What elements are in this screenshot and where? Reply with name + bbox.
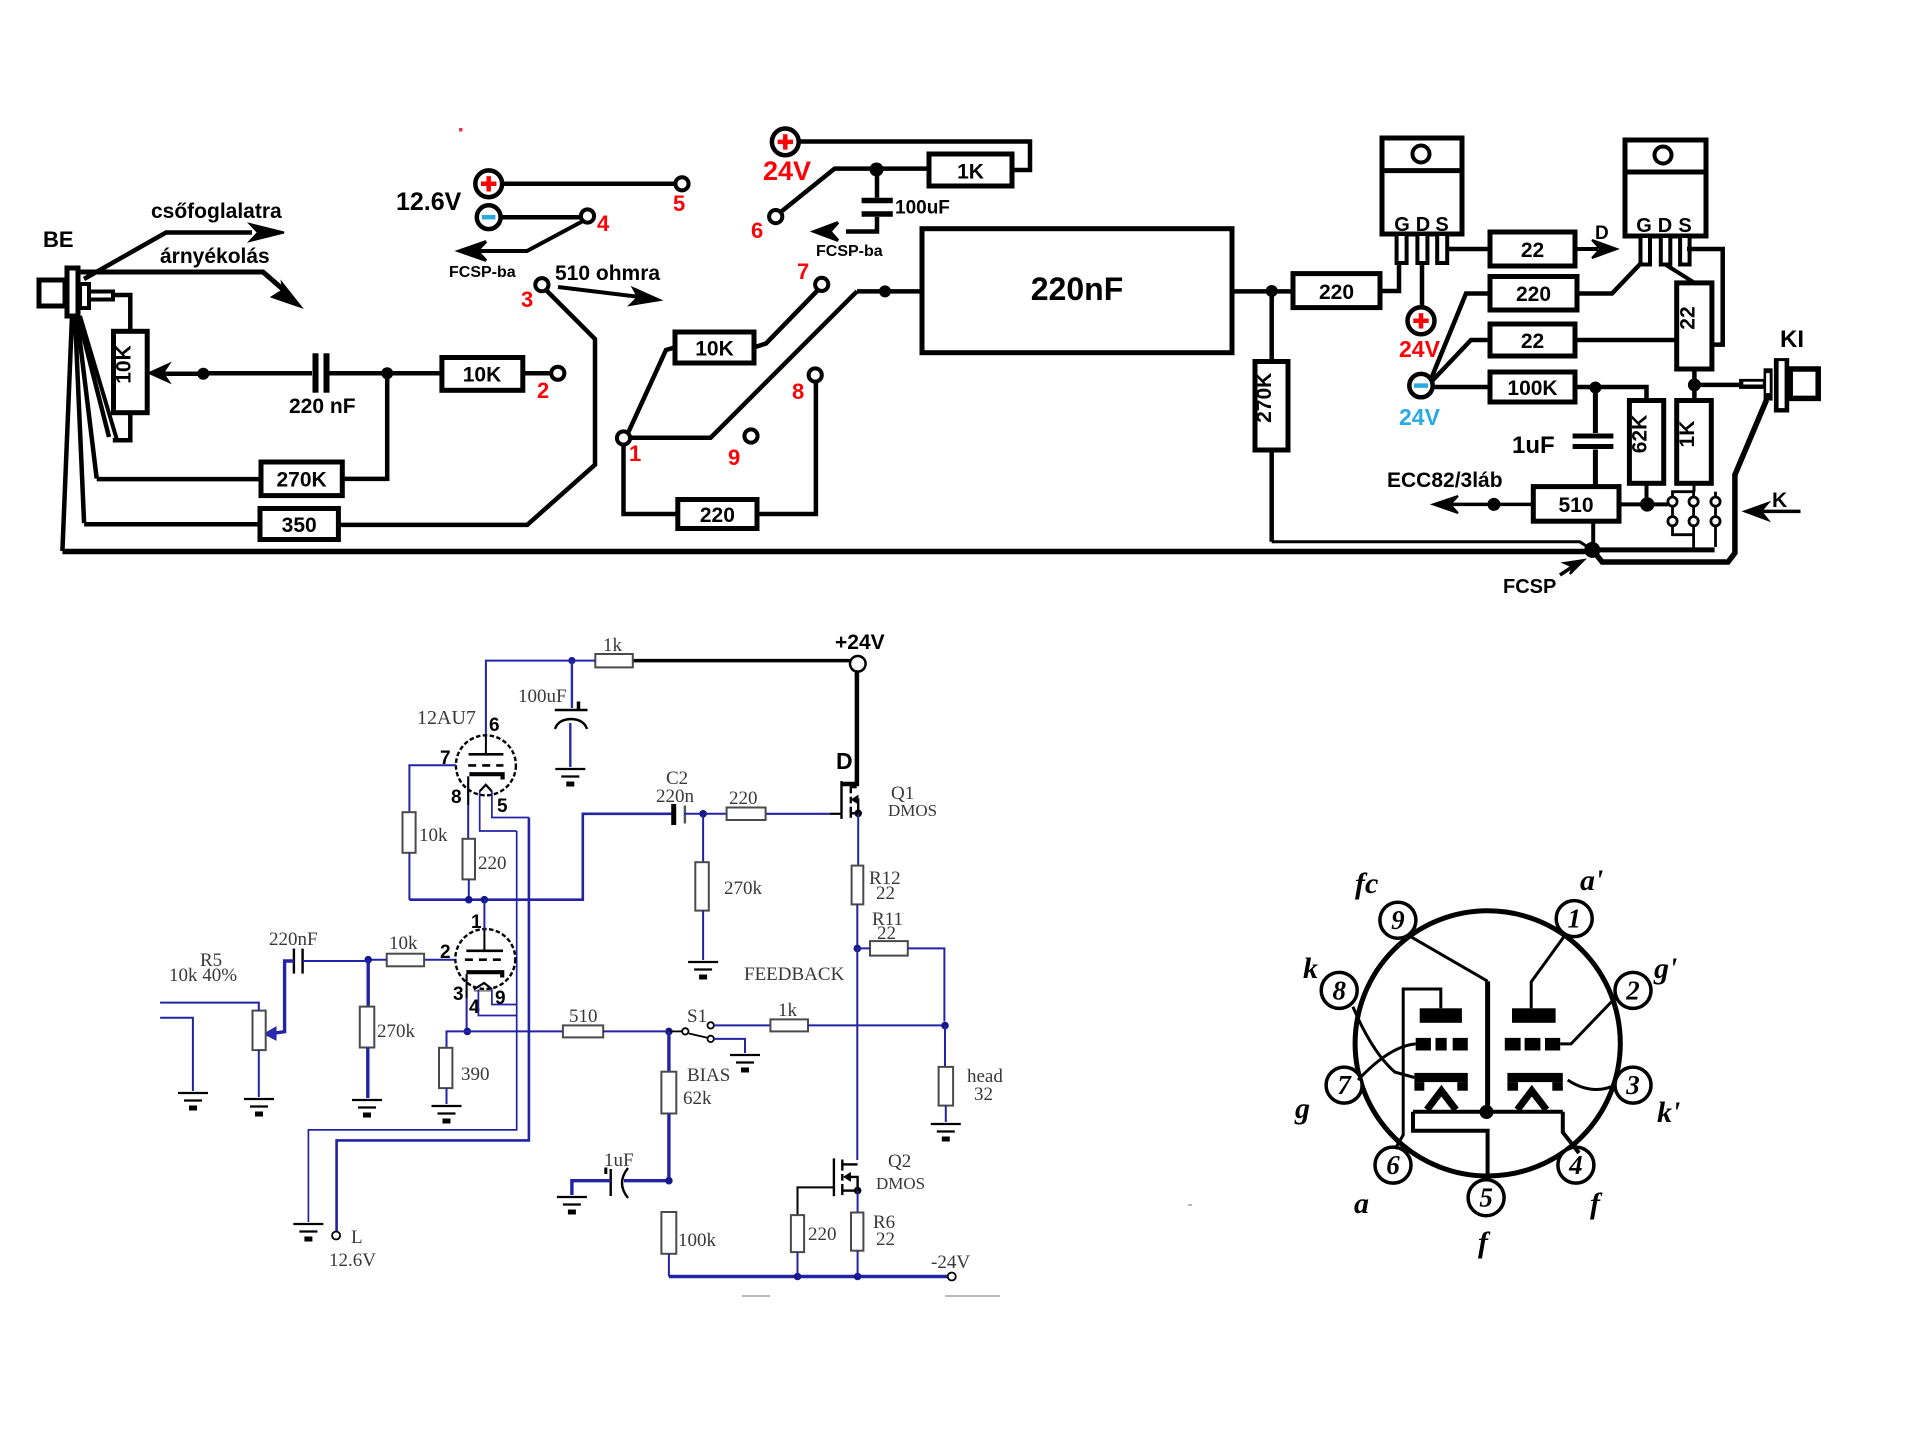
svg-text:S1: S1: [687, 1006, 707, 1027]
svg-text:3: 3: [453, 984, 464, 1005]
svg-text:220: 220: [700, 504, 735, 527]
svg-text:8: 8: [1332, 976, 1346, 1006]
svg-text:FCSP-ba: FCSP-ba: [816, 243, 883, 260]
resistor 10K (to point 2): [442, 358, 523, 391]
wire point 8 down to 220: [757, 382, 816, 514]
wire pot bottom to ground: [258, 1050, 260, 1097]
resistor 220 (row2): [1490, 277, 1577, 311]
wire pin1 to right anode: [1531, 934, 1566, 1008]
svg-text:10k: 10k: [389, 933, 418, 954]
svg-text:32: 32: [974, 1084, 993, 1105]
svg-text:350: 350: [282, 514, 317, 537]
wire 220 row2 left to minus: [1431, 294, 1490, 380]
svg-text:62K: 62K: [1629, 415, 1652, 454]
wire head to ground: [945, 1106, 947, 1122]
svg-text:12.6V: 12.6V: [329, 1250, 376, 1271]
svg-text:S: S: [1678, 215, 1691, 237]
resistor head 32: [939, 1067, 954, 1106]
svg-text:4: 4: [1568, 1150, 1583, 1180]
svg-text:D: D: [836, 748, 853, 774]
wire heater bus B: [337, 818, 529, 1232]
arrow 510 ohmra: [558, 287, 660, 305]
wire 1K bottom to header: [1693, 483, 1696, 491]
svg-text:k': k': [1657, 1096, 1680, 1129]
resistor 220 (Q1 gate): [727, 808, 766, 821]
wire 350 right to point 3: [338, 290, 595, 525]
wire cathode2 down: [466, 974, 468, 1031]
ground (100uF): [555, 769, 585, 784]
svg-text:6: 6: [751, 218, 763, 243]
wire-arrow to ECC82: [1433, 496, 1533, 513]
svg-text:DMOS: DMOS: [876, 1174, 925, 1193]
svg-text:12.6V: 12.6V: [396, 188, 462, 216]
wire 1k node to tube1 plate: [486, 661, 595, 736]
svg-text:L: L: [351, 1227, 363, 1248]
wire pin8 to left cathode: [1353, 1007, 1415, 1078]
wire BE fan line 3: [77, 317, 97, 479]
svg-text:4: 4: [597, 211, 610, 236]
wire 220nF to node: [303, 960, 369, 962]
wire 22 row3 right to 22 vertical: [1575, 338, 1677, 343]
capacitor 220 nF: [316, 353, 327, 392]
resistor 1K: [929, 154, 1012, 186]
resistor 270K: [261, 462, 342, 496]
wire tube2 plate to node: [483, 900, 485, 930]
terminal point 3: [535, 278, 548, 291]
terminal -24V: [948, 1273, 956, 1281]
svg-text:a: a: [1354, 1187, 1369, 1220]
terminal 12.6V minus: [477, 205, 501, 229]
wire S pin #2 loop: [1687, 249, 1723, 345]
svg-text:220: 220: [808, 1224, 837, 1245]
wire 22 row3 left to minus: [1432, 340, 1490, 381]
svg-text:K: K: [1772, 489, 1787, 512]
terminal 24V plus (mid): [1408, 307, 1435, 334]
wire 220 to G pin: [1380, 262, 1399, 291]
terminal point 5: [675, 177, 688, 190]
svg-text:510 ohmra: 510 ohmra: [555, 262, 660, 285]
wire tube2 heater pin9: [492, 989, 517, 1004]
wire 10K left to point 1: [628, 347, 675, 433]
transistor Q2 DMOS: [834, 1158, 858, 1196]
wire 100k down to -24V bus: [668, 1254, 670, 1277]
wire 62K bottom: [1645, 483, 1649, 504]
tube 12AU7 triode 2: [455, 929, 515, 991]
heater bottom wiring: [1413, 1110, 1563, 1114]
svg-text:6: 6: [489, 715, 500, 736]
svg-text:10k: 10k: [419, 825, 448, 846]
svg-text:2: 2: [537, 378, 549, 403]
svg-text:270k: 270k: [724, 878, 763, 899]
svg-text:3: 3: [1625, 1070, 1640, 1100]
junction dot bias node: [665, 1028, 673, 1036]
svg-text:csőfoglalatra: csőfoglalatra: [151, 200, 282, 223]
pin 8 circle: [1321, 972, 1357, 1008]
svg-text:22: 22: [1521, 330, 1544, 353]
svg-text:D: D: [1416, 214, 1430, 236]
terminal point 7: [815, 278, 828, 291]
resistor 270k (input): [360, 960, 375, 1098]
junction dot cathode2: [464, 1028, 472, 1036]
wire 1k fb to out node: [808, 1024, 942, 1026]
svg-text:g': g': [1653, 952, 1677, 985]
terminal 24V plus: [772, 129, 799, 156]
wire +24V down to Q1 drain (black): [842, 672, 857, 784]
junction node A: [381, 367, 393, 379]
svg-text:FCSP: FCSP: [1503, 576, 1556, 598]
wire to 390: [447, 1031, 468, 1047]
wire Q2 source to R6: [857, 1191, 859, 1213]
wire cap to node: [330, 371, 442, 376]
anode right (plate bar): [1512, 1008, 1556, 1023]
svg-text:220: 220: [729, 788, 758, 809]
svg-text:8: 8: [451, 787, 462, 808]
svg-text:1uF: 1uF: [604, 1150, 634, 1171]
junction dot ECC82 wire: [1487, 498, 1500, 511]
svg-text:270K: 270K: [1253, 373, 1276, 423]
svg-text:220n: 220n: [656, 786, 695, 807]
svg-text:k: k: [1303, 952, 1318, 985]
svg-text:24V: 24V: [763, 156, 811, 186]
resistor 510: [1533, 487, 1619, 522]
svg-text:100uF: 100uF: [895, 198, 950, 219]
wire pot top to input: [160, 1003, 259, 1011]
svg-text:10K: 10K: [695, 338, 734, 361]
transistor TO220 #2: [1625, 140, 1706, 265]
svg-text:22: 22: [876, 883, 895, 904]
junction dot out node: [941, 1022, 949, 1030]
junction dot 62K bottom: [1640, 497, 1654, 511]
cathode right (bar with legs): [1507, 1073, 1562, 1091]
wire D pin to 24V plus: [1420, 262, 1425, 307]
wire S pin to 22: [1448, 247, 1490, 252]
junction dot input node: [364, 956, 372, 964]
wire cathode pin8 down: [467, 776, 469, 838]
junction dot node1: [465, 896, 473, 904]
wire input stub 2 to ground: [160, 1018, 193, 1091]
svg-text:BE: BE: [43, 227, 74, 252]
svg-text:FCSP-ba: FCSP-ba: [449, 264, 516, 281]
resistor 22 (vertical): [1677, 283, 1712, 369]
svg-text:510: 510: [1558, 494, 1593, 517]
pin 4 circle: [1558, 1147, 1594, 1183]
svg-text:fc: fc: [1355, 867, 1378, 900]
wire junction to KI: [1694, 383, 1740, 388]
svg-text:1uF: 1uF: [1512, 432, 1555, 459]
svg-text:BIAS: BIAS: [687, 1065, 730, 1086]
svg-text:270k: 270k: [377, 1021, 416, 1042]
resistor 350: [260, 509, 338, 540]
resistor 220 (points 1-8): [678, 500, 757, 529]
svg-text:100K: 100K: [1507, 377, 1557, 400]
grid right (dashes): [1505, 1038, 1560, 1051]
wire Q1 gate: [766, 813, 830, 815]
wire wiper to cap: [203, 371, 312, 376]
wire Q1 source to R12: [857, 813, 859, 865]
svg-text:Q2: Q2: [888, 1151, 911, 1172]
resistor 1K (vertical): [1677, 401, 1712, 484]
wire 10K to point 2: [523, 371, 551, 376]
ground (270k): [352, 1100, 382, 1115]
wire 1k to +24V (black): [633, 659, 850, 663]
pin 5 circle: [1468, 1180, 1504, 1216]
cathode left (bar with legs): [1414, 1073, 1467, 1091]
arrow D output: [1575, 240, 1617, 258]
grid left (dashes): [1416, 1038, 1468, 1051]
svg-text:S: S: [1435, 214, 1448, 236]
svg-text:G: G: [1636, 215, 1652, 237]
junction dot FCSP: [1584, 542, 1600, 558]
wire K (KI to FCSP): [1592, 400, 1766, 562]
terminal point 2: [551, 367, 564, 380]
svg-text:G: G: [1394, 214, 1410, 236]
wire into 220nF left: [857, 289, 922, 294]
arrow FCSP-ba (mid): [814, 223, 838, 241]
wire minus to 100K: [1435, 385, 1490, 390]
wire 270K bottom to FCSP: [1272, 542, 1593, 550]
wire grid2 to 10k: [424, 959, 455, 961]
svg-text:1K: 1K: [957, 161, 984, 184]
pin 3 circle: [1615, 1067, 1651, 1103]
wire Q2 gate to 220: [798, 1187, 834, 1215]
resistor 220 (Q2 gate): [791, 1215, 804, 1252]
svg-text:5: 5: [673, 191, 685, 216]
wire 1uF right to node: [624, 1179, 669, 1182]
wire 270k mid to ground: [702, 911, 704, 960]
resistor 1k (top): [595, 654, 633, 667]
svg-text:1k: 1k: [778, 1000, 798, 1021]
ground (head): [931, 1124, 961, 1139]
wire diagonal node to point 1: [630, 291, 857, 437]
wire point 6 up to 1K node: [781, 169, 929, 212]
svg-text:24V: 24V: [1399, 336, 1441, 362]
junction dot shield-heater: [1480, 1105, 1494, 1119]
junction dot 220nF left: [879, 285, 891, 297]
wire 390 to ground: [446, 1088, 448, 1104]
svg-text:1k: 1k: [603, 635, 623, 656]
pin 1 circle: [1556, 901, 1592, 937]
resistor 510 (schem): [563, 1025, 603, 1037]
ground (270k mid): [688, 962, 718, 977]
wire out node to head: [944, 1026, 946, 1067]
junction dot 100K-1uF: [1589, 382, 1601, 394]
resistor 62k (BIAS): [661, 1072, 676, 1114]
svg-text:270K: 270K: [276, 469, 326, 492]
wire 510 to S1: [603, 1030, 665, 1032]
wire minus to point 4: [501, 215, 581, 220]
svg-text:100uF: 100uF: [518, 686, 567, 707]
terminal point 8: [809, 368, 822, 381]
terminal point 1: [617, 431, 630, 444]
wire tube2 heater pin4: [478, 990, 516, 1016]
capacitor C2 220n: [674, 804, 685, 825]
wire S1 lower contact to ground: [714, 1039, 745, 1053]
wire 22 vertical bottom: [1692, 369, 1697, 379]
wire 220nF elbow to pot wiper: [272, 961, 294, 1034]
resistor 22 (row1): [1490, 232, 1575, 266]
wire -24V bus: [669, 1275, 948, 1278]
wire point 7 to 10K: [754, 290, 818, 347]
capacitor 100uF (schem): [555, 661, 588, 767]
resistor 220 (tube1 cathode): [463, 839, 476, 880]
center shield line: [1485, 981, 1490, 1112]
wire 220 down to node: [468, 879, 470, 899]
wire 510 bottom to FCSP: [1591, 521, 1595, 546]
box 220nF (big): [922, 229, 1232, 353]
svg-text:10K: 10K: [113, 345, 136, 384]
svg-text:árnyékolás: árnyékolás: [160, 245, 270, 268]
wire arrow arnyekolas: [80, 272, 301, 307]
wire 1K right loop to 24V plus: [799, 142, 1030, 171]
ground (1uF): [557, 1197, 587, 1212]
svg-text:2: 2: [1625, 976, 1640, 1006]
connector KI: [1739, 358, 1818, 412]
speck (red dot): [459, 128, 463, 132]
svg-text:390: 390: [461, 1064, 490, 1085]
wire 350 left to BE: [84, 522, 260, 527]
wire 62k to 1uF node: [667, 1114, 670, 1181]
pin header (3x2 circles): [1668, 492, 1720, 548]
wire 220 to bus: [797, 1252, 799, 1276]
wire heater pin4 (tube1): [480, 791, 517, 831]
svg-text:DMOS: DMOS: [888, 801, 937, 820]
wire left anode to pin6: [1395, 989, 1441, 1149]
svg-text:22: 22: [877, 923, 896, 944]
resistor 270K (vertical): [1255, 291, 1288, 542]
resistor R12 22: [852, 866, 864, 905]
svg-text:FEEDBACK: FEEDBACK: [744, 964, 845, 985]
wire heater bus A: [308, 831, 516, 1222]
junction dot 1uF node: [665, 1177, 673, 1185]
wire D pin #2 to 22 vertical: [1665, 264, 1695, 283]
heater right chevron: [1517, 1091, 1546, 1110]
svg-text:22: 22: [1521, 239, 1544, 262]
capacitor 1uF: [1573, 388, 1614, 487]
capacitor 220nF (schem): [294, 949, 303, 974]
junction dot wiper: [197, 368, 209, 380]
terminal 24V minus (mid): [1409, 374, 1432, 397]
svg-text:5: 5: [1479, 1183, 1493, 1213]
svg-text:220: 220: [1516, 283, 1551, 306]
wire R6 to bus: [857, 1251, 859, 1277]
junction dot 1k left: [568, 657, 575, 664]
junction dot Q2 source: [854, 1187, 862, 1195]
wire cathode2 to 510: [467, 1030, 563, 1032]
resistor 100K: [1490, 372, 1575, 402]
svg-text:-24V: -24V: [931, 1252, 970, 1273]
pin 9 circle: [1380, 902, 1416, 938]
svg-text:9: 9: [1391, 905, 1405, 935]
wire arrow to csofoglalatra: [84, 224, 284, 279]
switch S1: [669, 1022, 714, 1042]
wire 220 row2 right to G of TO220 #2: [1577, 260, 1644, 294]
wire 510 right to pins: [1619, 502, 1668, 506]
svg-text:22: 22: [876, 1229, 895, 1250]
svg-text:9: 9: [728, 445, 740, 470]
pin 7 circle: [1326, 1067, 1362, 1103]
wire pin9 to shield: [1408, 935, 1488, 981]
wire pin7 to left grid: [1358, 1044, 1416, 1080]
wire FCSP to pin header: [1592, 547, 1714, 552]
wire pin3 to right cathode: [1568, 1080, 1615, 1090]
connector BE (input jack): [39, 268, 113, 316]
potentiometer R5: [253, 1011, 266, 1051]
resistor 10K (middle): [675, 332, 754, 363]
wire R12 to R11 node: [856, 904, 858, 948]
heater left chevron: [1427, 1091, 1456, 1110]
svg-text:220nF: 220nF: [269, 929, 318, 950]
resistor 22 (row3): [1490, 324, 1575, 356]
junction dot below 22 vertical: [1688, 378, 1701, 391]
resistor 10k (tube1 grid): [403, 812, 416, 853]
wire 220nF right: [1232, 289, 1293, 294]
svg-text:12AU7: 12AU7: [417, 707, 476, 729]
ground (S1): [730, 1055, 760, 1070]
svg-text:510: 510: [569, 1006, 598, 1027]
wire BE fan line 1: [62, 316, 72, 551]
capacitor 1uF (schem): [606, 1168, 628, 1199]
wire BE fan line 2: [75, 316, 84, 523]
anode left (plate bar): [1420, 1008, 1462, 1023]
svg-text:100k: 100k: [678, 1230, 717, 1251]
junction dot 220 bus: [794, 1273, 802, 1281]
svg-text:62k: 62k: [683, 1088, 712, 1109]
ground (12.6V bus A): [293, 1224, 323, 1239]
ground (pot): [244, 1099, 274, 1114]
svg-text:220 nF: 220 nF: [289, 395, 356, 418]
resistor R6 22: [851, 1213, 863, 1251]
wire bottom bus (BE ground): [62, 549, 1592, 555]
svg-text:7: 7: [797, 259, 809, 284]
wire point 1 down to 220: [624, 445, 678, 514]
svg-text:9: 9: [495, 988, 506, 1009]
svg-text:1: 1: [471, 912, 482, 933]
resistor R11 22: [870, 941, 908, 956]
svg-text:1: 1: [1567, 904, 1581, 934]
svg-text:10k 40%: 10k 40%: [169, 965, 237, 986]
transistor TO220 #1: [1382, 138, 1462, 263]
resistor 100k (schem): [661, 1212, 676, 1254]
wire BE fan line 5: [80, 316, 117, 440]
wire grid pin7 to 10k: [409, 765, 456, 812]
svg-text:g: g: [1294, 1092, 1310, 1125]
tube envelope circle (ECC82 socket): [1355, 911, 1620, 1176]
wire S1 to 1k fb: [714, 1024, 771, 1026]
resistor 10k (tube2 grid): [387, 954, 424, 967]
capacitor 100uF: [846, 168, 893, 231]
wire plus to point 5: [502, 182, 675, 187]
junction dot R11 node: [854, 945, 862, 953]
svg-text:220: 220: [1319, 281, 1354, 304]
svg-text:220: 220: [478, 853, 507, 874]
svg-text:220nF: 220nF: [1031, 271, 1123, 307]
wire BE fan line 4: [79, 317, 110, 437]
resistor 1k (feedback): [770, 1019, 808, 1031]
svg-text:6: 6: [1386, 1150, 1400, 1180]
wire 10k down to node: [408, 853, 410, 900]
terminal point 6: [769, 210, 782, 223]
wire node A down to 270K: [342, 373, 387, 479]
potentiometer 10K: [113, 295, 204, 440]
faint residue marks: [742, 1205, 1192, 1296]
ground (input): [178, 1093, 208, 1108]
wire pin2 to right grid: [1560, 996, 1617, 1044]
svg-text:D: D: [1658, 215, 1672, 237]
terminal 12.6V plus: [475, 170, 502, 197]
svg-text:7: 7: [1337, 1070, 1352, 1100]
junction dot node2: [481, 896, 489, 904]
svg-text:D: D: [1595, 223, 1609, 244]
